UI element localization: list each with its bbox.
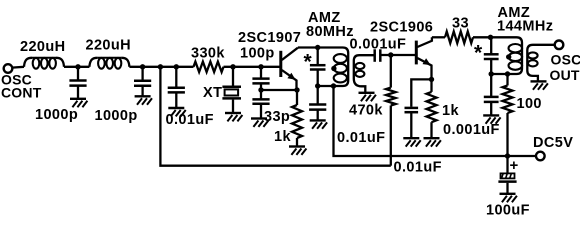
resistor R2 1k emitter xyxy=(292,90,302,146)
ground C2 xyxy=(135,96,152,104)
svg-text:1k: 1k xyxy=(274,129,291,145)
ground C5 xyxy=(251,119,268,127)
svg-text:1000p: 1000p xyxy=(35,107,78,123)
label 2SC1906 Q2 xyxy=(370,20,433,36)
label 0.01uF C7 xyxy=(337,130,385,146)
label 33 R5 xyxy=(452,16,469,32)
transistor Q2 2SC1906 base bar xyxy=(415,41,418,65)
capacitor C12 100uF electrolytic xyxy=(498,156,516,194)
resistor R3 470k xyxy=(386,55,396,166)
resistor R4 1k emitter xyxy=(427,79,437,137)
svg-text:1k: 1k xyxy=(442,103,459,119)
transformer T2 secondary xyxy=(527,45,554,81)
capacitor C7 0.01uF tank1 xyxy=(309,86,326,120)
svg-text:144MHz: 144MHz xyxy=(497,19,553,35)
junction node I (tank1 bottom feed) xyxy=(331,83,336,88)
asterisk mark tank1 xyxy=(304,51,313,74)
svg-text:OSC: OSC xyxy=(551,52,580,68)
junction node M (tank2 bottom) xyxy=(489,71,494,76)
ground C1 xyxy=(70,99,87,107)
label 100 R6 xyxy=(517,96,542,112)
label OSC CONT xyxy=(1,72,42,101)
ground T2 secondary xyxy=(531,81,548,89)
svg-text:*: * xyxy=(474,42,483,65)
label 0.001uF C9 xyxy=(443,122,500,138)
transformer T2 primary loops xyxy=(509,44,523,70)
label 220uH L2 xyxy=(86,38,132,54)
svg-text:100p: 100p xyxy=(240,45,275,61)
junction node N (T2 primary bottom) xyxy=(505,71,510,76)
label 33p C5 xyxy=(264,109,290,125)
label plus polarity xyxy=(510,157,519,174)
inductor L2 220uH xyxy=(89,58,129,69)
wire Q1 collector rail xyxy=(298,48,348,87)
label 220uH L1 xyxy=(20,39,66,55)
svg-text:100: 100 xyxy=(517,96,542,112)
svg-text:220uH: 220uH xyxy=(86,38,132,54)
svg-text:+: + xyxy=(510,157,519,174)
ground R4 xyxy=(424,138,441,146)
svg-text:OUT: OUT xyxy=(550,67,580,83)
resistor R5 33 xyxy=(432,32,491,44)
wire terminal to L1 xyxy=(12,66,24,69)
capacitor C8 0.001uF coupling xyxy=(375,49,416,62)
capacitor C4 100p xyxy=(252,67,269,90)
svg-text:CONT: CONT xyxy=(1,85,42,101)
wire L1 to L2 xyxy=(64,66,89,68)
label 1k R4 xyxy=(442,103,459,119)
label 470k R3 xyxy=(349,103,383,119)
capacitor C10 tank2 xyxy=(484,37,499,74)
label AMZ 144MHz T2 xyxy=(497,5,553,35)
label 0.01uF C3 xyxy=(166,112,214,128)
ground C9 xyxy=(403,138,420,146)
label 2SC1907 Q1 xyxy=(238,30,301,46)
svg-text:2SC1906: 2SC1906 xyxy=(370,20,433,36)
capacitor C2 1000p xyxy=(134,67,151,96)
transistor Q2 collector xyxy=(417,37,432,47)
junction node J (Q2 base) xyxy=(388,52,393,57)
svg-text:DC5V: DC5V xyxy=(533,135,573,151)
junction node K (Q2 emitter) xyxy=(429,77,434,82)
svg-text:220uH: 220uH xyxy=(20,39,66,55)
junction node E (divider mid) xyxy=(258,87,263,92)
label 1k R2 xyxy=(274,129,291,145)
svg-text:330k: 330k xyxy=(191,46,225,62)
transformer T1 primary loops xyxy=(334,54,347,82)
svg-text:0.01uF: 0.01uF xyxy=(337,130,385,146)
capacitor C3 0.01uF xyxy=(168,67,185,108)
svg-text:0.01uF: 0.01uF xyxy=(394,160,442,176)
junction node B3 (C3 tap) xyxy=(174,64,179,69)
junction node C (crystal tap) xyxy=(230,64,235,69)
junction node B (L2-C2) xyxy=(140,64,145,69)
junction node P (DC5V feed) xyxy=(505,153,510,158)
label 0.01uF bottom rail xyxy=(394,160,442,176)
transistor Q1 emitter xyxy=(282,70,297,90)
ground C7 xyxy=(310,120,327,128)
junction node G (tank1 top) xyxy=(315,45,320,50)
junction node B2 (bottom-rail tap) xyxy=(158,64,163,69)
junction node L (tank2 top) xyxy=(488,35,493,40)
junction node D (feedback divider) xyxy=(258,64,263,69)
label DC5V xyxy=(533,135,573,151)
transformer T1 primary tap dot xyxy=(331,66,336,71)
transformer T2 primary tap dot xyxy=(506,54,511,59)
svg-text:1000p: 1000p xyxy=(95,108,138,124)
transistor Q1 2SC1907 base bar xyxy=(279,51,282,77)
crystal XT xyxy=(222,67,241,113)
junction node A (L1-C1) xyxy=(75,64,80,69)
label AMZ 80MHz T1 xyxy=(306,10,354,40)
ground XT xyxy=(225,113,242,121)
label 100p C4 xyxy=(240,45,275,61)
svg-text:*: * xyxy=(304,51,313,74)
label OSC OUT xyxy=(550,52,580,84)
svg-text:100uF: 100uF xyxy=(486,203,530,219)
resistor R1 330k xyxy=(194,62,224,72)
terminal OSC OUT xyxy=(555,41,564,50)
svg-text:0.001uF: 0.001uF xyxy=(350,37,407,53)
junction node F (Q1 emitter) xyxy=(294,87,299,92)
svg-text:470k: 470k xyxy=(349,103,383,119)
label 1000p C1 xyxy=(35,107,78,123)
wire tank2 top to T2 primary xyxy=(491,37,523,74)
capacitor C11 0.001uF tank2 xyxy=(484,74,499,115)
ground C3 xyxy=(168,108,185,116)
label 0.001uF C8 xyxy=(350,37,407,53)
terminal DC5V xyxy=(536,152,545,161)
ground T1 secondary xyxy=(359,93,376,101)
svg-text:2SC1907: 2SC1907 xyxy=(238,30,301,46)
svg-text:80MHz: 80MHz xyxy=(306,24,354,40)
wire divider mid to emitter xyxy=(261,89,297,91)
svg-text:XT: XT xyxy=(203,85,222,101)
ground C12 xyxy=(500,194,517,202)
asterisk mark tank2 xyxy=(474,42,483,65)
capacitor C6 tank1 xyxy=(310,48,326,87)
svg-text:0.01uF: 0.01uF xyxy=(166,112,214,128)
svg-text:0.001uF: 0.001uF xyxy=(443,122,500,138)
label XT xyxy=(203,85,222,101)
junction node H (tank1 bottom) xyxy=(315,83,320,88)
transistor Q1 collector xyxy=(282,48,298,60)
transformer T1 secondary xyxy=(354,55,375,92)
capacitor C5 33p xyxy=(252,90,269,118)
resistor R6 100 xyxy=(503,74,513,156)
capacitor C9 0.001uF emitter bypass xyxy=(405,79,432,137)
svg-text:33p: 33p xyxy=(264,109,290,125)
label 100uF C12 xyxy=(486,203,530,219)
label 330k R1 xyxy=(191,46,225,62)
ground C11 xyxy=(483,115,500,123)
label 1000p C2 xyxy=(95,108,138,124)
svg-text:33: 33 xyxy=(452,16,469,32)
capacitor C1 1000p xyxy=(69,67,86,99)
inductor L1 220uH xyxy=(24,58,64,69)
terminal OSC CONT input xyxy=(4,64,13,73)
wire 330k to base xyxy=(224,66,280,68)
transistor Q2 emitter xyxy=(417,58,431,79)
wire bottom rail left leg xyxy=(160,67,390,166)
wire L2 to 330k xyxy=(129,66,193,68)
wire tank1 feed to supply rail xyxy=(334,86,537,156)
ground R2 xyxy=(289,147,306,155)
